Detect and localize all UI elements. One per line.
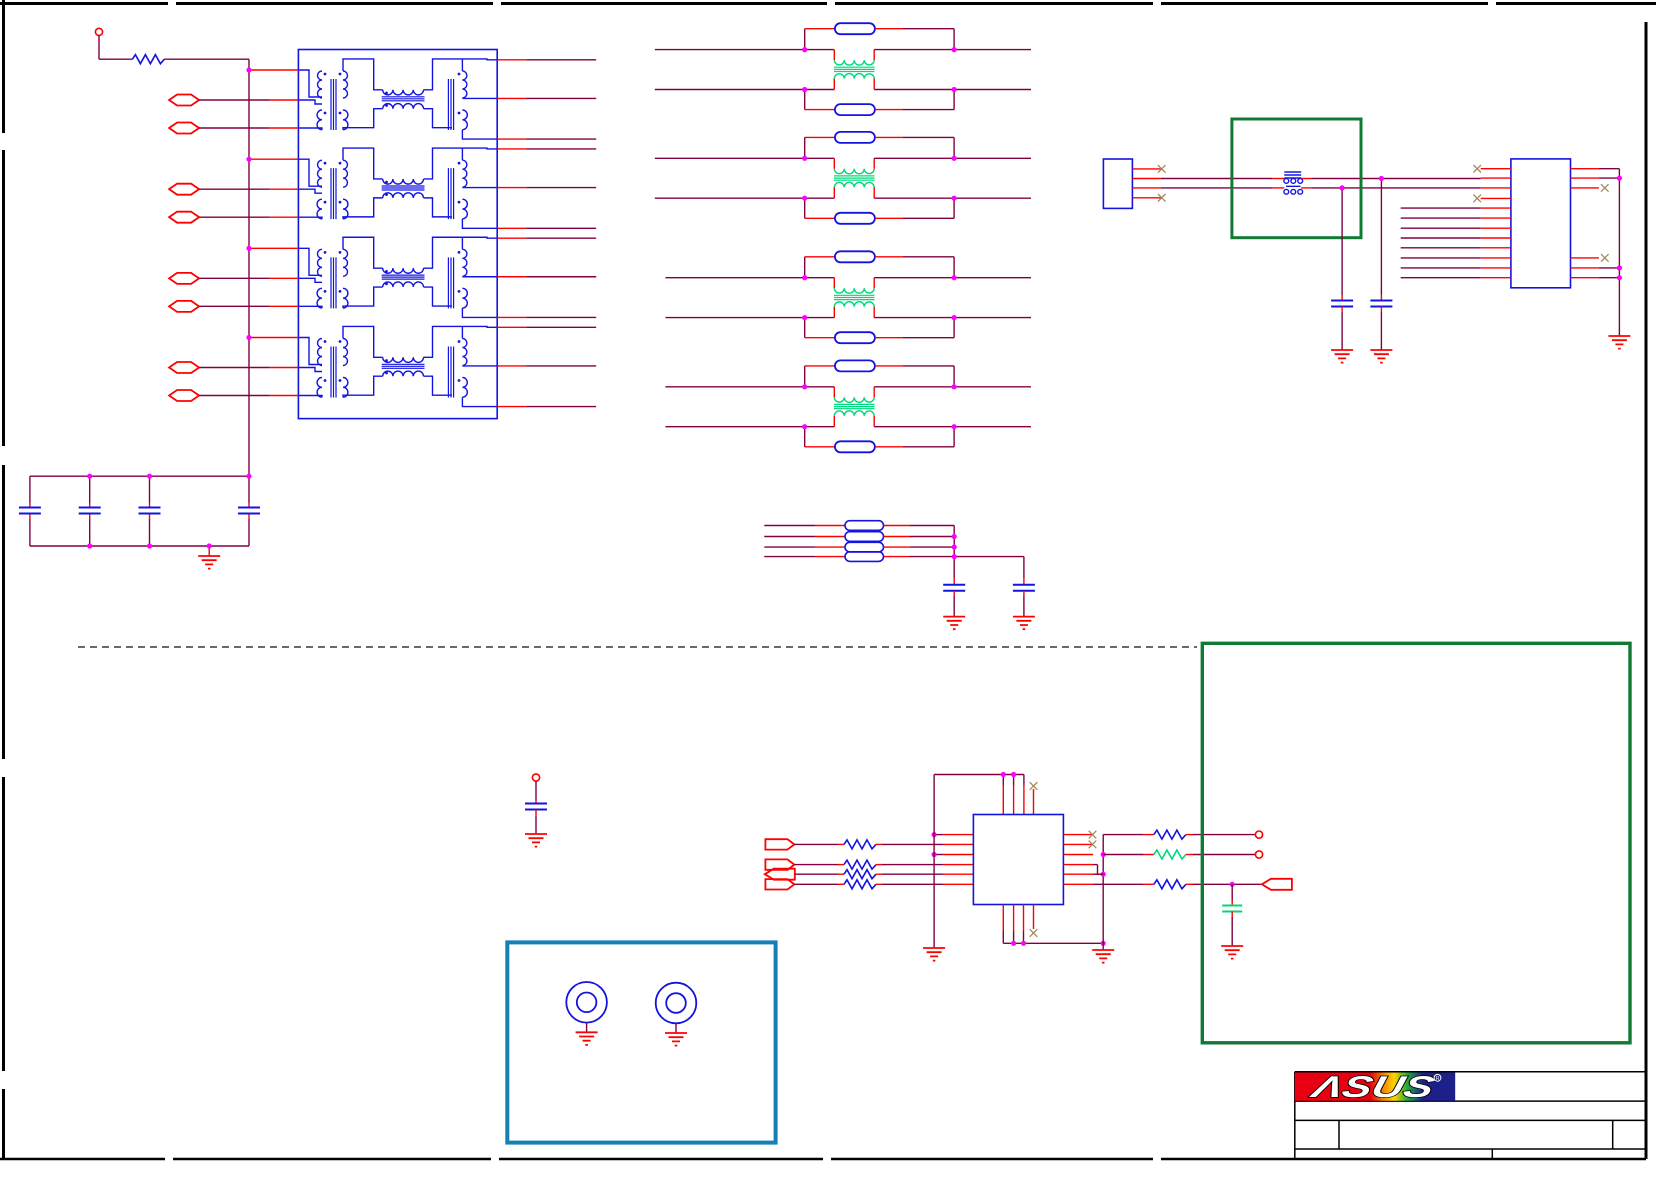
svg-text:R: R	[1436, 1076, 1440, 1082]
svg-text:ΛSUS: ΛSUS	[1306, 1070, 1437, 1103]
